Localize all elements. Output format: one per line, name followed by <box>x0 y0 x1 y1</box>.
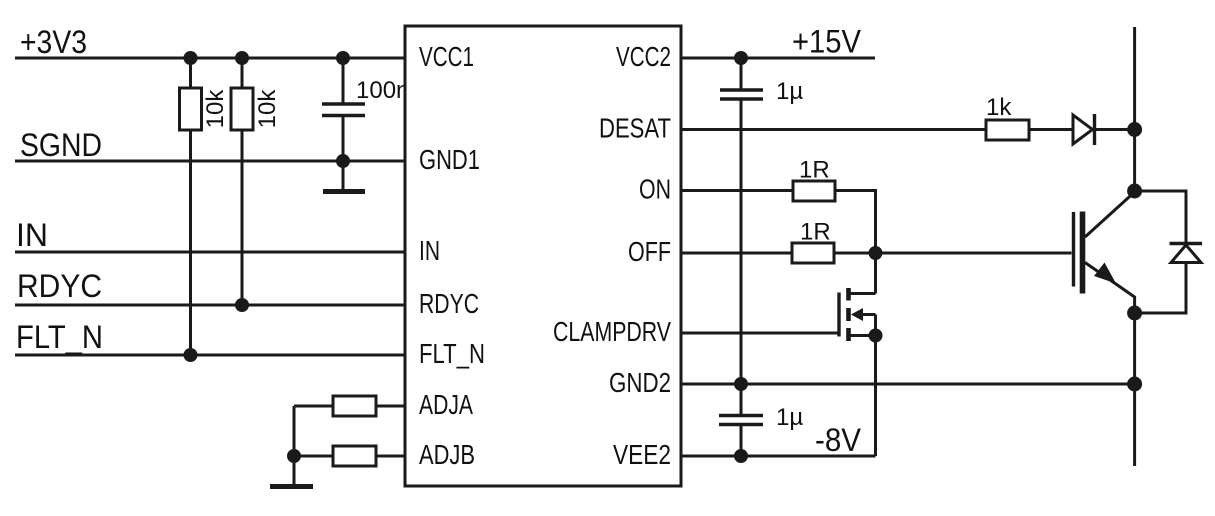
svg-text:1R: 1R <box>800 219 831 246</box>
wire VCC2 to +15V <box>681 57 875 60</box>
node junction collector <box>1127 184 1142 199</box>
svg-text:10k: 10k <box>254 89 281 129</box>
svg-text:IN: IN <box>16 217 48 253</box>
resistor R1 10k <box>180 58 230 355</box>
svg-text:RDYC: RDYC <box>17 268 102 304</box>
wire DESAT line <box>681 128 986 131</box>
node junction R1/+3V3 <box>184 51 198 65</box>
svg-text:1R: 1R <box>799 157 830 184</box>
wire GND2 line <box>681 383 1135 386</box>
resistor R7 ADJB <box>294 446 405 466</box>
wire ON to OFF node <box>835 191 876 254</box>
wire CLAMPDRV line <box>681 332 839 335</box>
node junction DESAT <box>1127 122 1142 137</box>
node junction C2/VCC2 <box>734 51 748 65</box>
svg-text:ON: ON <box>639 174 671 205</box>
wire R3 to D1 <box>1029 128 1073 131</box>
svg-text:100n: 100n <box>356 77 409 104</box>
svg-text:FLT_N: FLT_N <box>16 319 103 355</box>
transistor Q1 IGBT <box>1074 192 1135 313</box>
node junction C1/SGND <box>336 154 350 168</box>
wire FLT_N rail <box>15 354 405 357</box>
svg-text:FLT_N: FLT_N <box>419 338 485 369</box>
svg-text:IN: IN <box>419 235 440 266</box>
svg-text:VCC2: VCC2 <box>616 41 671 72</box>
wire source to VEE2 <box>874 336 877 457</box>
svg-text:ADJA: ADJA <box>419 389 474 420</box>
node junction OFF <box>869 246 883 260</box>
wire SGND rail <box>15 160 405 163</box>
wire ADJA-ADJB vertical <box>293 406 296 484</box>
svg-text:1k: 1k <box>986 94 1012 121</box>
svg-text:OFF: OFF <box>628 236 671 267</box>
svg-text:10k: 10k <box>202 89 229 129</box>
svg-text:+15V: +15V <box>792 24 862 60</box>
node junction VEE2/C3 <box>734 449 748 463</box>
svg-text:SGND: SGND <box>20 127 102 163</box>
svg-text:1µ: 1µ <box>776 404 803 431</box>
svg-text:+3V3: +3V3 <box>20 24 87 60</box>
svg-text:GND2: GND2 <box>609 367 671 398</box>
wire OFF to IGBT gate <box>834 252 1072 255</box>
svg-text:ADJB: ADJB <box>419 439 475 470</box>
ground below C1 <box>323 161 365 192</box>
svg-text:1µ: 1µ <box>776 78 803 105</box>
wire ON line <box>681 189 793 192</box>
op-amp U1 gate driver IC box <box>405 26 681 486</box>
wire IN rail <box>15 251 405 254</box>
svg-text:DESAT: DESAT <box>599 113 671 144</box>
node junction GND2/C3 <box>734 377 748 391</box>
node junction MOSFET source <box>869 329 883 343</box>
resistor R6 ADJA <box>294 396 405 416</box>
ground below ADJB <box>270 484 313 489</box>
diode D1 <box>1073 114 1135 145</box>
node junction emitter <box>1127 306 1142 321</box>
svg-text:VCC1: VCC1 <box>419 41 474 72</box>
svg-text:CLAMPDRV: CLAMPDRV <box>553 316 672 347</box>
wire collector rail top <box>1133 27 1136 191</box>
wire +3V3 rail <box>15 57 405 60</box>
diode D2 freewheel <box>1135 191 1202 313</box>
wire RDYC rail <box>15 304 405 307</box>
resistor R5 1R <box>792 219 834 264</box>
wire VEE2 line <box>681 455 876 458</box>
svg-text:GND1: GND1 <box>419 144 480 175</box>
resistor R3 1k <box>986 94 1029 140</box>
node junction GND2 right <box>1127 377 1142 392</box>
resistor R4 1R <box>793 157 835 202</box>
capacitor C3 1u <box>719 384 803 456</box>
node junction R2/RDYC <box>235 298 249 312</box>
node junction R1/FLT_N <box>184 348 198 362</box>
transistor Q2 clamp MOSFET <box>839 253 876 341</box>
wire emitter rail down <box>1133 313 1136 466</box>
capacitor C1 100n <box>322 58 409 161</box>
resistor R2 10k <box>231 58 281 305</box>
node junction ADJB <box>287 449 301 463</box>
wire OFF line <box>681 252 792 255</box>
svg-text:RDYC: RDYC <box>419 288 479 319</box>
node junction R2/+3V3 <box>235 51 249 65</box>
node junction C1/+3V3 <box>336 51 350 65</box>
capacitor C2 1u <box>720 58 803 384</box>
svg-text:-8V: -8V <box>815 422 862 458</box>
svg-text:VEE2: VEE2 <box>613 439 671 470</box>
